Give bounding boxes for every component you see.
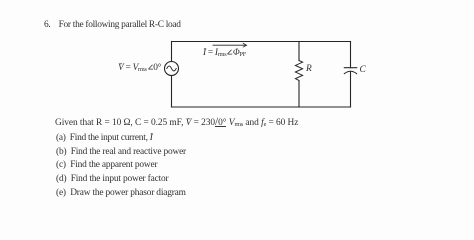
label: source phasor V = Vrms ∠0° — [118, 63, 161, 73]
given data line — [55, 118, 298, 128]
item (e) — [56, 188, 186, 198]
label: C — [360, 65, 366, 75]
wire: bottom rail — [172, 106, 351, 108]
problem title — [44, 20, 181, 30]
capacitor C top plate — [344, 67, 356, 69]
wire: capacitor branch bottom — [350, 72, 352, 107]
item (d) — [56, 174, 168, 184]
sine wave inside source — [167, 66, 176, 71]
wire: resistor branch bottom — [298, 81, 300, 108]
wire: resistor branch top — [298, 42, 300, 61]
wire: top rail from source to right branch — [172, 41, 351, 43]
label: current phasor I = Irms ∠ PHI_PF — [203, 47, 246, 58]
item (c) — [56, 160, 157, 170]
current arrow over I label — [213, 44, 246, 46]
item (b) — [56, 147, 186, 157]
wire: left bottom segment source to bottom rail — [171, 76, 173, 108]
wire: left top segment source to top rail — [171, 42, 173, 62]
capacitor C bottom curved plate — [344, 71, 356, 73]
resistor R zigzag — [295, 61, 302, 81]
wire: capacitor branch top — [350, 42, 352, 68]
label: R — [306, 64, 312, 74]
item (a) — [56, 133, 153, 143]
voltage source V̂ (ac source circle) — [165, 62, 179, 76]
